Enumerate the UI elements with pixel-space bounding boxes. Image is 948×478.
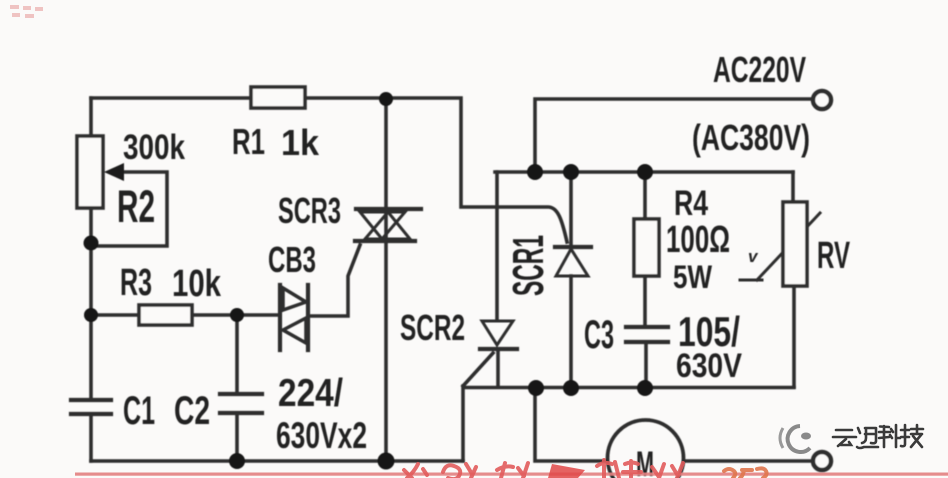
svg-text:SCR3: SCR3 <box>278 190 341 231</box>
svg-text:C1: C1 <box>123 389 155 433</box>
svg-text:630V: 630V <box>676 347 742 385</box>
svg-text:R2: R2 <box>117 181 155 232</box>
svg-text:C3: C3 <box>584 313 614 357</box>
svg-text:v: v <box>748 247 759 266</box>
svg-text:100Ω: 100Ω <box>666 219 730 261</box>
svg-text:SCR2: SCR2 <box>400 307 465 348</box>
svg-text:R1: R1 <box>232 121 265 162</box>
svg-text:224/: 224/ <box>278 372 343 415</box>
svg-text:SCR1: SCR1 <box>504 235 553 296</box>
svg-text:C2: C2 <box>174 389 210 433</box>
svg-text:10k: 10k <box>172 263 222 305</box>
svg-text:630Vx2: 630Vx2 <box>276 415 367 456</box>
svg-text:5W: 5W <box>673 259 713 295</box>
svg-text:RV: RV <box>817 235 850 277</box>
svg-text:CB3: CB3 <box>268 239 316 280</box>
svg-text:(AC380V): (AC380V) <box>692 117 810 158</box>
svg-text:AC220V: AC220V <box>713 49 806 90</box>
svg-text:300k: 300k <box>123 128 185 167</box>
svg-text:R4: R4 <box>674 184 708 223</box>
svg-text:R3: R3 <box>120 262 152 304</box>
svg-text:1k: 1k <box>281 122 320 163</box>
